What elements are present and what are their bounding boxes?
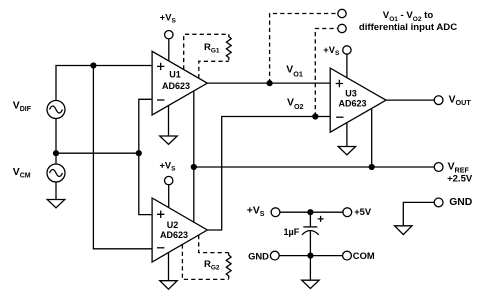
ground under U1 [160,136,177,144]
+Vs terminal of U3 [343,46,351,54]
terminal +5V [343,208,352,217]
resistor RG2 (dashed optional) [182,235,231,279]
wire VREF line [194,166,434,168]
wire U3 ground stem [346,123,348,147]
terminal VOUT [434,96,443,105]
wire GND to COM [279,255,342,257]
dashed tap VO1 to ADC terminal [270,14,338,84]
svg-text:AD623: AD623 [160,230,188,240]
node VO2 [312,113,318,119]
node supply junction [307,209,313,215]
wire +Vs to U1 [168,39,170,61]
svg-text:GND: GND [449,197,473,208]
ground under VCM [47,200,64,208]
wire U1 output to U3 + input (VO1) [207,82,330,84]
node U3 REF junction [369,164,375,170]
wire U3 REF pin to VREF line [371,108,373,167]
ground right [395,226,412,235]
terminal +Vs supply [271,208,280,217]
wire +Vs to U3 [346,54,348,78]
ground bottom [302,280,319,288]
wire U2 output up to U3 - input (VO2) [207,117,330,231]
wire: source midpoint to U1-/U2+ vertical [56,152,139,154]
svg-text:AD623: AD623 [338,98,366,108]
wire GND terminal to ground [403,202,434,225]
terminal GND supply [270,251,279,260]
node junction on top wire [90,62,96,68]
wire between sources [55,119,57,165]
node VO1 [267,80,273,86]
ground under U3 [338,147,355,155]
wire U2 ground stem [168,253,170,281]
wire: U1 - input down to U2 + input [139,99,152,214]
svg-text:+5V: +5V [354,206,372,217]
+Vs terminal of U1 [165,31,173,39]
wire U1 ground stem [168,106,170,137]
terminal GND right [434,198,443,207]
node REF junction [191,164,197,170]
wire top: VDIF top to U1 + input [56,66,152,101]
op-amp U3 [330,68,386,132]
wire +Vs to +5V [280,211,343,213]
wire U1 REF pin down to VREF line [193,91,195,167]
resistor RG1 (dashed optional) [184,34,232,78]
svg-text:U3: U3 [345,88,357,98]
voltage source VDIF [47,101,65,119]
wire to bottom ground [309,256,311,281]
terminal VREF [434,163,443,172]
node junction [136,150,142,156]
ground under U2 [160,281,177,290]
dashed tap VO2 to ADC terminal [315,29,337,117]
op-amp U1 [152,51,207,115]
svg-text:U2: U2 [167,220,179,230]
svg-text:COM: COM [353,250,375,261]
op-amp U2 [152,198,207,262]
wire VCM to ground [55,182,57,200]
svg-text:U1: U1 [169,69,181,79]
terminal COM [343,251,352,260]
svg-text:1µF: 1µF [284,227,300,237]
capacitor C1 1uF [302,212,324,255]
svg-text:GND: GND [248,251,269,262]
svg-text:AD623: AD623 [162,81,190,91]
wire +Vs to U2 [168,185,170,208]
ADC terminal 2 [338,24,346,32]
+Vs terminal of U2 [165,176,173,184]
node junction between sources [53,150,59,156]
node ground junction [307,253,313,259]
svg-text:differential input ADC: differential input ADC [359,22,457,33]
wire U3 output to VOUT [386,99,434,101]
svg-text:+2.5V: +2.5V [447,174,473,185]
wire U2 REF pin up to VREF line [193,167,195,222]
wire: junction down to U2 - input [93,66,152,249]
voltage source VCM [47,164,65,182]
ADC terminal 1 [338,9,346,17]
